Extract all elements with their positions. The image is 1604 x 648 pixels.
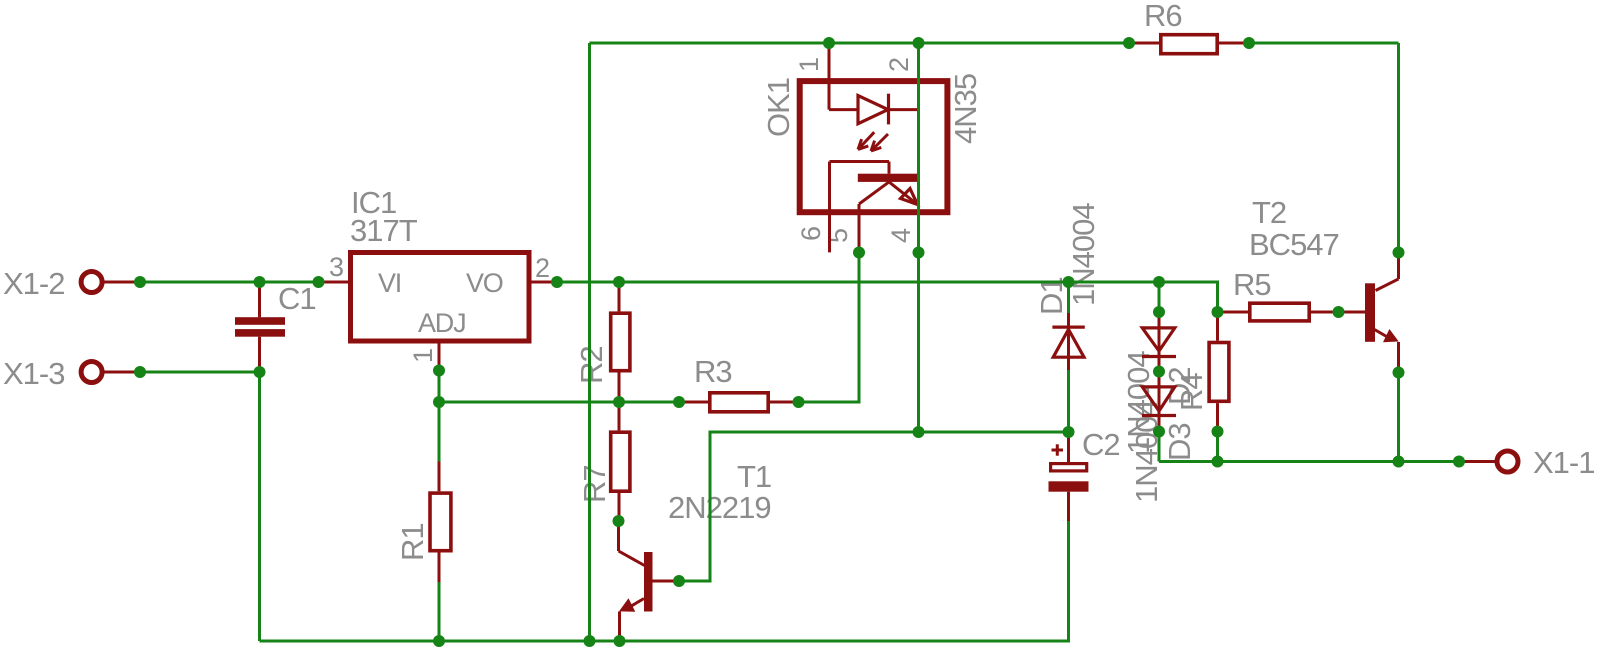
- junction 20: [913, 247, 925, 259]
- OK1 LED: [829, 43, 919, 124]
- svg-text:X1-1: X1-1: [1533, 445, 1594, 480]
- junction 25: [614, 635, 626, 647]
- diode D3 1N4004: [1142, 372, 1176, 432]
- resistor R7: [611, 402, 630, 521]
- resistor R5: [1218, 303, 1339, 321]
- junction 5: [613, 276, 625, 288]
- junction 37: [1393, 247, 1405, 259]
- transistor T1 2N2219: [619, 521, 680, 641]
- resistor R6: [1129, 35, 1249, 54]
- diode D1 1N4004: [1052, 313, 1084, 370]
- diode D2 1N4004: [1142, 312, 1176, 372]
- capacitor C2 (polarized): [1049, 432, 1089, 521]
- wire output rail: [1159, 460, 1459, 463]
- transistor T2 BC547: [1339, 253, 1399, 373]
- svg-text:317T: 317T: [350, 213, 418, 248]
- junction 12: [134, 366, 146, 378]
- junction 15: [433, 396, 445, 408]
- svg-text:VI: VI: [378, 268, 401, 298]
- wire top rail left: [590, 42, 1130, 45]
- wire ADJ row: [439, 401, 679, 404]
- optocoupler OK1 4N35 box: [800, 81, 948, 212]
- junction 7: [1153, 276, 1165, 288]
- junction 23: [433, 635, 445, 647]
- svg-text:R6: R6: [1144, 0, 1182, 33]
- wire X1-2 to IC1: [140, 281, 319, 284]
- svg-text:R1: R1: [395, 523, 430, 561]
- junction 6: [1063, 276, 1075, 288]
- OK1 phototransistor: [830, 162, 919, 253]
- junction 32: [1153, 426, 1165, 438]
- junction 1: [134, 276, 146, 288]
- junction 35: [1393, 456, 1405, 468]
- svg-text:X1-2: X1-2: [3, 266, 64, 301]
- svg-text:5: 5: [823, 229, 853, 243]
- junction 33: [1212, 426, 1224, 438]
- wire bottom rail: [260, 521, 1069, 641]
- terminal X1-1: [1459, 451, 1518, 472]
- capacitor C1: [235, 282, 285, 372]
- junction 21: [613, 515, 625, 527]
- wire T2 emitter down: [1397, 373, 1400, 462]
- wire R4 bottom: [1216, 432, 1219, 462]
- svg-text:4: 4: [886, 228, 916, 243]
- wire VO rail: [557, 282, 1218, 312]
- svg-text:R2: R2: [574, 346, 609, 384]
- wire D2 top: [1158, 282, 1161, 312]
- svg-text:6: 6: [796, 227, 826, 241]
- junction 14: [433, 365, 445, 377]
- svg-text:2: 2: [535, 253, 549, 283]
- svg-text:T1: T1: [737, 459, 771, 494]
- op IC1 317T regulator box: [319, 253, 558, 371]
- junction 22: [673, 575, 685, 587]
- junction 19: [853, 247, 865, 259]
- junction 27: [1063, 426, 1075, 438]
- wire OK1 pin2 to pin4: [917, 43, 920, 432]
- terminal X1-2: [81, 272, 140, 293]
- junction 8: [823, 37, 835, 49]
- svg-text:R3: R3: [694, 354, 732, 389]
- junction 2: [254, 276, 266, 288]
- svg-text:2N2219: 2N2219: [668, 490, 771, 525]
- resistor R1: [430, 462, 451, 583]
- svg-text:1: 1: [408, 349, 438, 363]
- junction 38: [1393, 367, 1405, 379]
- junction 36: [1453, 456, 1465, 468]
- svg-text:R5: R5: [1233, 267, 1271, 302]
- junction 29: [1212, 306, 1224, 318]
- wire R3 to OK1 pin5: [799, 253, 860, 403]
- junction 30: [1333, 306, 1345, 318]
- svg-text:X1-3: X1-3: [3, 356, 64, 391]
- svg-text:C2: C2: [1082, 427, 1120, 462]
- svg-text:VO: VO: [466, 268, 503, 298]
- wire X1-3 to C1: [140, 371, 260, 374]
- wire T1 collector: [679, 432, 1069, 581]
- wire D1 bottom: [1067, 370, 1070, 432]
- junction 31: [1153, 366, 1165, 378]
- junction 34: [1212, 456, 1224, 468]
- junction 24: [584, 635, 596, 647]
- svg-text:1: 1: [794, 58, 824, 72]
- wire left vertical: [588, 43, 591, 641]
- junction 13: [254, 366, 266, 378]
- wire ADJ node: [438, 371, 441, 403]
- svg-text:3: 3: [329, 252, 343, 282]
- svg-text:OK1: OK1: [761, 78, 796, 137]
- svg-text:ADJ: ADJ: [418, 308, 465, 338]
- wire R1 top: [438, 402, 441, 462]
- junction 28: [1153, 306, 1165, 318]
- wire D3 bottom: [1158, 432, 1161, 462]
- svg-text:D3: D3: [1162, 423, 1197, 461]
- wire D1 top: [1067, 282, 1070, 313]
- svg-text:R4: R4: [1174, 373, 1209, 411]
- wire C1 down: [258, 372, 261, 641]
- junction 4: [551, 276, 563, 288]
- junction 3: [313, 276, 325, 288]
- junction 16: [613, 396, 625, 408]
- svg-text:1N4004: 1N4004: [1066, 203, 1101, 306]
- wire R1 bottom: [438, 582, 441, 641]
- svg-text:BC547: BC547: [1249, 227, 1339, 262]
- wire T2 collector drop: [1397, 43, 1400, 253]
- junction 9: [913, 37, 925, 49]
- junction 18: [793, 396, 805, 408]
- svg-text:2: 2: [884, 58, 914, 72]
- svg-text:4N35: 4N35: [948, 74, 983, 144]
- OK1 light arrow b: [871, 134, 888, 151]
- terminal X1-3: [81, 362, 140, 383]
- resistor R3: [679, 393, 799, 412]
- junction 17: [673, 396, 685, 408]
- junction 26: [913, 426, 925, 438]
- resistor R2: [611, 282, 630, 402]
- junction 11: [1243, 37, 1255, 49]
- svg-text:R7: R7: [577, 465, 612, 503]
- svg-text:T2: T2: [1252, 195, 1286, 230]
- OK1 light arrow a: [858, 132, 874, 149]
- resistor R4: [1209, 312, 1229, 432]
- junction 10: [1123, 37, 1135, 49]
- svg-text:C1: C1: [278, 281, 316, 316]
- wire top rail right: [1249, 42, 1399, 45]
